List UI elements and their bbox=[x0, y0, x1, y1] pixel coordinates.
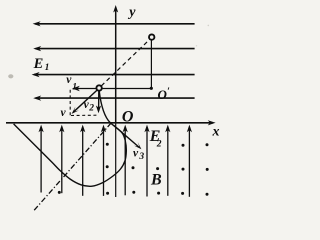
circular-arc trajectory below x-axis (with straight 45-degree exit segment) bbox=[14, 123, 127, 187]
E2 field arrow 1 bbox=[39, 125, 44, 193]
svg-text:2: 2 bbox=[156, 140, 162, 150]
E2 field arrow 7 bbox=[165, 125, 170, 196]
v3 label bbox=[133, 148, 144, 163]
E1 label bbox=[33, 56, 50, 73]
dashed vertical side of velocity parallelogram bbox=[69, 90, 71, 116]
y-axis bbox=[113, 5, 118, 123]
v1 vector (horizontal line through mid charge to O' with left arrowhead) bbox=[72, 86, 151, 91]
v1 label bbox=[66, 74, 77, 93]
E1 field line 2 bbox=[33, 46, 194, 51]
svg-text:y: y bbox=[127, 5, 136, 20]
parabolic trajectory from mid charge to x-axis bbox=[99, 91, 110, 123]
E2 field arrow 6 bbox=[144, 125, 149, 197]
svg-text:′: ′ bbox=[167, 86, 170, 97]
magnetic field dot grid row 1 bbox=[106, 143, 209, 147]
v vector (diagonal down-left) bbox=[72, 90, 98, 114]
dashed horizontal side of velocity parallelogram bbox=[71, 114, 98, 116]
svg-text:B: B bbox=[150, 172, 162, 189]
E2 field arrow 8 bbox=[187, 125, 192, 197]
dashed 45-degree chord line below x-axis toward entry point bbox=[34, 124, 110, 211]
svg-text:x: x bbox=[212, 124, 220, 139]
E1 field line 4 bbox=[33, 96, 194, 101]
junction dot at O' bbox=[150, 87, 153, 90]
E2 field arrow 4 bbox=[101, 125, 106, 196]
top charge circle bbox=[149, 34, 154, 39]
faint scan smudge artifacts bbox=[8, 25, 209, 79]
E2 field arrow 5 bbox=[123, 125, 128, 196]
E2 label bbox=[149, 128, 162, 150]
vertical drop line from top charge to O' bbox=[150, 40, 152, 88]
magnetic field dot grid row 3 bbox=[58, 191, 209, 196]
dashed 45-degree line from mid charge to top charge bbox=[101, 40, 149, 86]
svg-text:1: 1 bbox=[45, 63, 50, 73]
svg-text:E: E bbox=[33, 56, 44, 72]
svg-text:2: 2 bbox=[88, 104, 94, 114]
v2 label bbox=[84, 99, 95, 113]
v3 vector (down-right 45 degrees from axis crossing) bbox=[114, 125, 142, 149]
O' label bbox=[158, 86, 171, 102]
y-axis extension field line below origin bbox=[115, 123, 117, 197]
svg-text:O: O bbox=[158, 87, 168, 102]
E1 field line 3 bbox=[32, 72, 195, 77]
svg-text:v: v bbox=[61, 107, 67, 119]
v2 vector (straight down from mid charge) bbox=[96, 91, 101, 113]
mid charge circle bbox=[96, 85, 101, 90]
magnetic field dot grid row 2 bbox=[106, 165, 209, 171]
E2 field arrow 2 bbox=[59, 125, 64, 194]
svg-text:3: 3 bbox=[138, 152, 144, 162]
E2 field arrow 3 bbox=[80, 125, 85, 196]
E1 field line 1 bbox=[33, 21, 195, 26]
svg-text:v: v bbox=[133, 148, 139, 160]
svg-text:O: O bbox=[122, 109, 134, 126]
svg-text:1: 1 bbox=[72, 82, 77, 92]
x-axis bbox=[6, 120, 216, 125]
